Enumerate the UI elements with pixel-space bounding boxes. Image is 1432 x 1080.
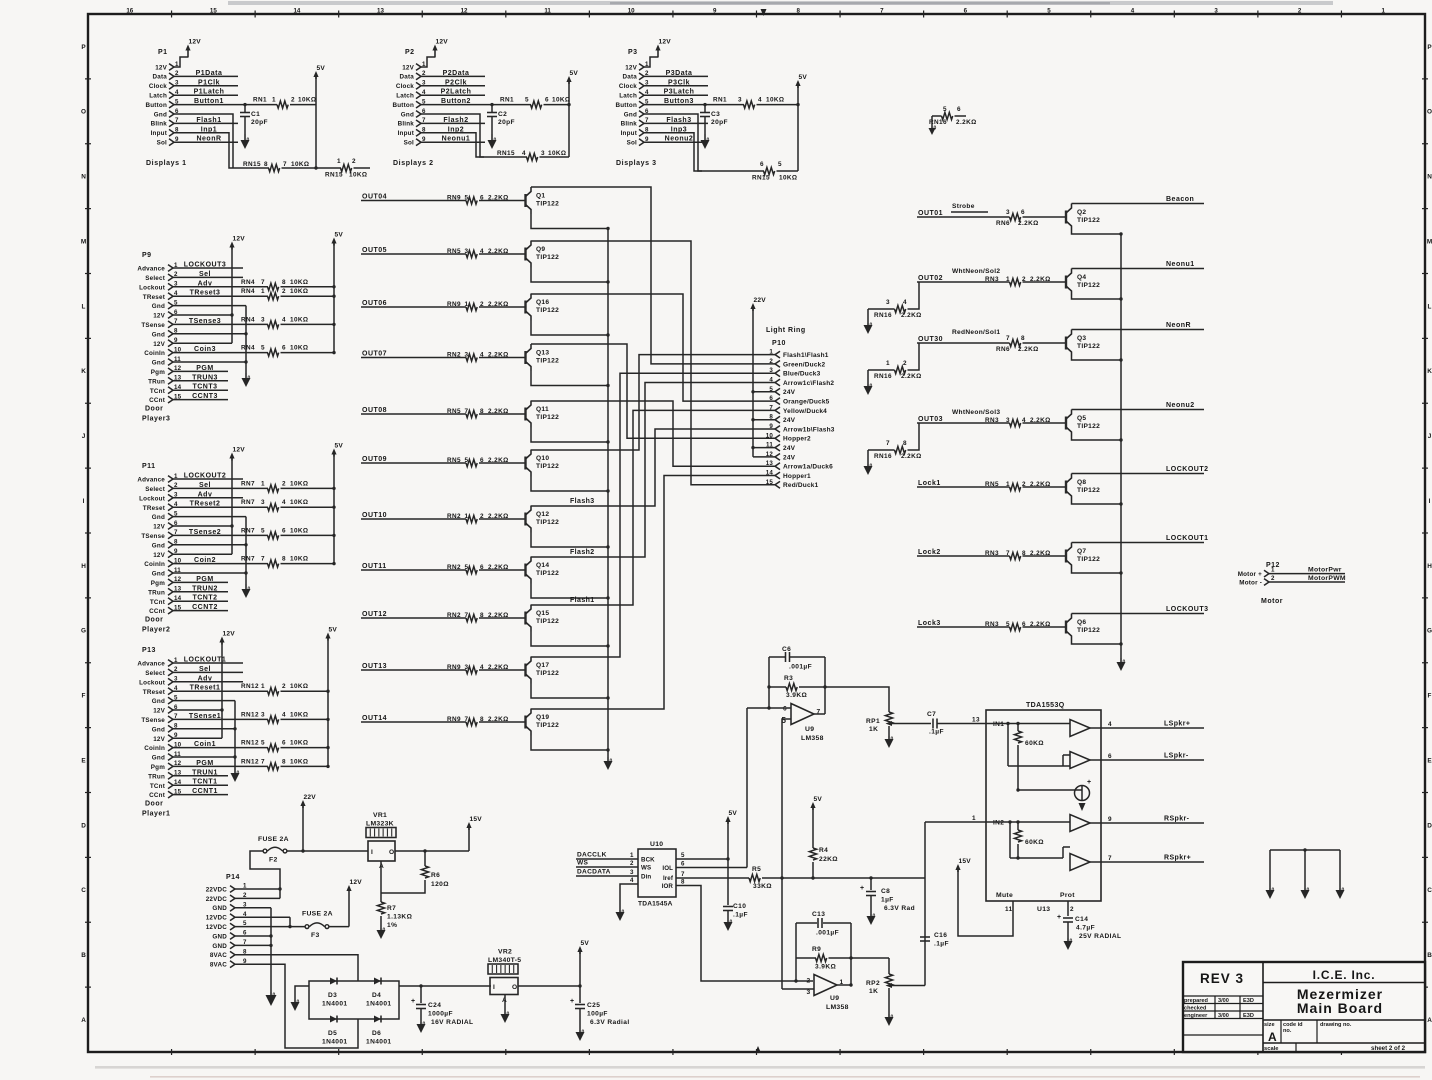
diode D3 1N4001 <box>322 978 348 1008</box>
svg-text:22V: 22V <box>304 794 317 801</box>
svg-text:RN9: RN9 <box>447 716 461 723</box>
svg-text:RN3: RN3 <box>985 417 999 424</box>
resistor RN9 3-4 2.2K <box>447 664 525 674</box>
svg-text:Arrow1c\Flash2: Arrow1c\Flash2 <box>783 380 834 387</box>
svg-text:5V: 5V <box>335 443 344 450</box>
ground arrow RN16 (OUT02) <box>864 323 873 335</box>
svg-text:12VDC: 12VDC <box>206 924 228 931</box>
svg-text:24V: 24V <box>783 454 796 461</box>
P11 12V power rail <box>229 447 245 555</box>
svg-text:24V: 24V <box>783 445 796 452</box>
resistor RN4 5-6 10K <box>173 345 336 357</box>
resistor RN2 7-8 2.2K <box>447 612 525 622</box>
15V supply to U13 mute <box>955 858 1013 936</box>
svg-text:12V: 12V <box>233 236 246 243</box>
svg-text:J: J <box>1428 433 1432 440</box>
svg-text:2: 2 <box>282 288 286 295</box>
net label OUT02 <box>918 275 943 282</box>
svg-text:RN12: RN12 <box>241 740 259 747</box>
svg-text:8: 8 <box>282 279 286 286</box>
svg-text:3: 3 <box>886 299 890 306</box>
svg-text:8: 8 <box>264 161 268 168</box>
svg-text:7: 7 <box>261 279 265 286</box>
wire Q9 collector to P10 pin 15 <box>531 241 775 485</box>
svg-text:Select: Select <box>145 670 165 677</box>
top border column numbers 16..1 <box>126 8 1385 18</box>
svg-text:I: I <box>371 849 373 856</box>
svg-text:OUT11: OUT11 <box>362 563 387 570</box>
svg-text:LM323K: LM323K <box>366 821 394 828</box>
svg-text:14: 14 <box>766 470 774 477</box>
Q2 emitter wire to rail <box>1072 231 1123 236</box>
svg-text:1: 1 <box>465 513 469 520</box>
svg-text:15V: 15V <box>959 858 972 865</box>
wire OUT12 to resistor <box>361 617 466 619</box>
svg-text:13: 13 <box>377 8 384 15</box>
svg-text:TRun: TRun <box>148 589 165 596</box>
svg-text:1: 1 <box>886 360 890 367</box>
svg-text:CoinIn: CoinIn <box>144 350 165 357</box>
label Displays 2 <box>393 160 434 167</box>
diode bridge outline <box>309 981 399 1019</box>
wire bridge output to VR2 <box>399 984 491 987</box>
svg-text:5: 5 <box>1047 8 1051 15</box>
Q1 emitter wire to ground rail <box>531 214 610 230</box>
svg-text:TRUN2: TRUN2 <box>192 585 218 592</box>
ground arrow RN16 (OUT30) <box>864 384 873 396</box>
svg-text:TRUN1: TRUN1 <box>192 769 218 776</box>
net label OUT30 <box>918 336 943 343</box>
svg-text:0: 0 <box>870 323 873 329</box>
label Door Player2 <box>142 617 170 634</box>
svg-text:5: 5 <box>261 740 265 747</box>
net label Lock2 <box>918 549 941 556</box>
svg-text:P: P <box>81 44 86 51</box>
svg-text:2.2KΩ: 2.2KΩ <box>488 301 509 308</box>
U13 lower bias network <box>986 820 1070 859</box>
transistor Q4 TIP122 <box>1066 269 1100 296</box>
wire OUT11 to resistor <box>361 569 466 571</box>
svg-text:2.2KΩ: 2.2KΩ <box>488 248 509 255</box>
svg-text:2: 2 <box>480 301 484 308</box>
svg-text:Flash2: Flash2 <box>570 549 595 556</box>
svg-text:15: 15 <box>210 8 217 15</box>
svg-text:TCnt: TCnt <box>150 388 166 395</box>
resistor RN9 5-6 2.2K <box>447 194 525 204</box>
P2 signal stubs <box>421 70 485 143</box>
svg-text:TIP122: TIP122 <box>536 254 559 261</box>
P9 ground arrow <box>242 373 251 387</box>
Q13 emitter wire to ground rail <box>531 371 610 387</box>
resistor RN7 7-8 10K <box>173 556 336 568</box>
wire U9a output to RP1 <box>814 687 889 714</box>
ground arrow U10 pin4 <box>616 910 625 922</box>
diode D4 1N4001 <box>366 978 392 1008</box>
svg-text:1.13KΩ: 1.13KΩ <box>387 914 413 921</box>
svg-text:Q16: Q16 <box>536 299 549 306</box>
feedback wires around U9b <box>796 923 853 987</box>
svg-text:.1µF: .1µF <box>929 729 944 736</box>
wire Button3 to RN1 <box>644 103 707 106</box>
P1 signal stubs <box>174 70 238 143</box>
svg-text:RN5: RN5 <box>447 248 461 255</box>
wire F3 to 12V arrow <box>329 879 362 927</box>
svg-text:J: J <box>82 433 86 440</box>
P11 ground arrow <box>242 584 251 598</box>
svg-text:3: 3 <box>1006 417 1010 424</box>
svg-text:5V: 5V <box>335 232 344 239</box>
svg-text:2: 2 <box>903 360 907 367</box>
svg-text:Flash3: Flash3 <box>570 498 595 505</box>
P10 22V power rail <box>750 297 766 457</box>
transistor Q2 TIP122 <box>1066 204 1100 231</box>
svg-text:TIP122: TIP122 <box>536 519 559 526</box>
svg-text:2: 2 <box>282 480 286 487</box>
svg-text:C16: C16 <box>934 932 947 939</box>
svg-text:WS: WS <box>641 865 651 872</box>
svg-text:Clock: Clock <box>396 83 414 90</box>
wire OUT04 to resistor <box>361 200 466 202</box>
svg-text:1N4001: 1N4001 <box>366 1039 392 1046</box>
svg-text:10KΩ: 10KΩ <box>766 97 784 104</box>
svg-text:RN7: RN7 <box>241 499 255 506</box>
svg-text:Q17: Q17 <box>536 662 549 669</box>
wire Q16 collector to P10 pin 6 <box>531 294 775 401</box>
svg-text:Flash2: Flash2 <box>443 117 468 124</box>
wire P14 8VAC pin8 to bridge <box>235 955 358 981</box>
svg-text:OUT08: OUT08 <box>362 407 387 414</box>
Q19 emitter wire to ground rail <box>531 736 610 752</box>
wire OUT09 to resistor <box>361 462 466 464</box>
svg-text:TSense: TSense <box>141 533 165 540</box>
svg-text:Q3: Q3 <box>1077 335 1086 342</box>
svg-text:10KΩ: 10KΩ <box>290 316 308 323</box>
resistor R4 22K and 5V <box>809 796 838 878</box>
svg-text:Flash1: Flash1 <box>196 117 221 124</box>
svg-text:TRun: TRun <box>148 773 165 780</box>
svg-text:4: 4 <box>480 248 484 255</box>
svg-text:Gnd: Gnd <box>624 111 637 118</box>
svg-text:TIP122: TIP122 <box>1077 217 1100 224</box>
U10 pin8 IOR wire to U9b <box>676 879 813 983</box>
svg-text:DACCLK: DACCLK <box>577 852 607 859</box>
svg-text:Q2: Q2 <box>1077 209 1086 216</box>
svg-text:1N4001: 1N4001 <box>366 1001 392 1008</box>
wire P14 8VAC pin9 to bridge <box>235 964 358 1048</box>
svg-text:TCnt: TCnt <box>150 599 166 606</box>
svg-text:NeonR: NeonR <box>1166 322 1191 329</box>
wire Q11 collector to P10 pin 13 <box>531 401 775 466</box>
wire Lock1 to resistor <box>917 486 1010 488</box>
svg-text:TIP122: TIP122 <box>1077 282 1100 289</box>
svg-text:VR1: VR1 <box>373 812 387 819</box>
svg-text:12V: 12V <box>436 39 449 46</box>
svg-text:F: F <box>1428 693 1432 700</box>
svg-text:Door: Door <box>145 406 163 413</box>
svg-text:RN15: RN15 <box>752 175 770 182</box>
transistor Q6 TIP122 <box>1066 614 1100 641</box>
svg-text:8: 8 <box>1022 550 1026 557</box>
wire VR1 adj <box>380 861 382 902</box>
svg-text:Data: Data <box>623 74 638 81</box>
svg-text:2.2KΩ: 2.2KΩ <box>1030 481 1051 488</box>
svg-text:TSense: TSense <box>141 717 165 724</box>
resistor RN16 5-6 2.2K (top) <box>929 106 977 126</box>
svg-text:2.2KΩ: 2.2KΩ <box>901 453 922 460</box>
svg-text:C2: C2 <box>498 111 507 118</box>
title size row <box>1263 1020 1425 1044</box>
resistor RN5 3-4 2.2K <box>447 248 525 258</box>
svg-text:U9: U9 <box>830 995 839 1002</box>
ground arrows triple stub <box>1266 888 1345 900</box>
label Displays 1 <box>146 160 187 167</box>
svg-text:25V RADIAL: 25V RADIAL <box>1079 933 1121 940</box>
svg-text:OUT06: OUT06 <box>362 300 387 307</box>
svg-text:1N4001: 1N4001 <box>322 1039 348 1046</box>
svg-text:RP1: RP1 <box>866 718 880 725</box>
svg-text:Q1: Q1 <box>536 193 545 200</box>
net label OUT11 <box>362 563 387 570</box>
svg-text:RP2: RP2 <box>866 980 880 987</box>
svg-text:P3Latch: P3Latch <box>664 89 695 96</box>
svg-text:Latch: Latch <box>396 93 414 100</box>
resistor RN7 1-2 10K <box>173 480 336 492</box>
svg-text:5: 5 <box>943 106 947 113</box>
svg-text:8: 8 <box>903 440 907 447</box>
svg-text:GND: GND <box>212 943 227 950</box>
svg-text:2.2KΩ: 2.2KΩ <box>956 119 977 126</box>
svg-text:TIP122: TIP122 <box>1077 343 1100 350</box>
Q14 emitter wire to ground rail <box>531 584 610 600</box>
net label RedNeon/Sol1 <box>952 329 1000 336</box>
svg-text:2.2KΩ: 2.2KΩ <box>488 408 509 415</box>
svg-text:5: 5 <box>261 527 265 534</box>
svg-text:9: 9 <box>769 423 773 430</box>
wire Q12 collector to P10 pin 9 <box>531 429 775 506</box>
svg-text:RN1: RN1 <box>253 97 267 104</box>
svg-text:E3D: E3D <box>1243 998 1254 1004</box>
net label Flash1 <box>570 597 595 604</box>
svg-text:2.2KΩ: 2.2KΩ <box>1030 621 1051 628</box>
svg-text:O: O <box>81 109 86 116</box>
svg-text:12V: 12V <box>189 39 202 46</box>
svg-text:16V RADIAL: 16V RADIAL <box>431 1019 473 1026</box>
svg-text:OUT09: OUT09 <box>362 456 387 463</box>
resistor RN1 1-2 10K <box>245 97 316 109</box>
svg-text:Lock3: Lock3 <box>918 620 941 627</box>
svg-text:C24: C24 <box>428 1002 441 1009</box>
svg-text:8: 8 <box>282 758 286 765</box>
P3 12V power arrow <box>644 39 671 68</box>
svg-text:5V: 5V <box>729 810 738 817</box>
svg-text:L: L <box>82 303 86 310</box>
svg-text:OUT30: OUT30 <box>918 336 943 343</box>
svg-text:Flash1\Flash1: Flash1\Flash1 <box>783 352 829 359</box>
svg-text:6: 6 <box>769 395 773 402</box>
svg-text:RN5: RN5 <box>447 457 461 464</box>
svg-text:Player3: Player3 <box>142 416 170 423</box>
svg-text:5V: 5V <box>799 74 808 81</box>
svg-text:P1Latch: P1Latch <box>194 89 225 96</box>
Q7 emitter wire to rail <box>1072 570 1123 575</box>
svg-text:P3: P3 <box>628 49 638 56</box>
capacitor C13 .001uF <box>796 911 851 937</box>
resistor RN12 5-6 10K <box>173 740 330 752</box>
svg-text:LOCKOUT2: LOCKOUT2 <box>1166 466 1209 473</box>
P13 ground arrow <box>231 768 240 782</box>
svg-text:10KΩ: 10KΩ <box>290 480 308 487</box>
svg-text:RN5: RN5 <box>985 481 999 488</box>
svg-text:2.2KΩ: 2.2KΩ <box>901 312 922 319</box>
connector P9 (Door Player3) <box>137 252 181 404</box>
svg-text:11: 11 <box>544 8 551 15</box>
svg-text:12V: 12V <box>155 64 167 71</box>
svg-text:3: 3 <box>807 989 811 996</box>
svg-text:RN16: RN16 <box>874 312 892 319</box>
svg-text:Door: Door <box>145 617 163 624</box>
svg-text:2.2KΩ: 2.2KΩ <box>488 457 509 464</box>
svg-text:TCnt: TCnt <box>150 783 166 790</box>
svg-text:C8: C8 <box>881 888 890 895</box>
svg-text:1: 1 <box>272 97 276 104</box>
svg-text:RN15: RN15 <box>325 172 343 179</box>
svg-text:0: 0 <box>1342 888 1345 894</box>
resistor RN9 7-8 2.2K <box>447 716 525 726</box>
svg-text:RN1: RN1 <box>500 97 514 104</box>
svg-text:FUSE 2A: FUSE 2A <box>302 911 333 918</box>
svg-text:15V: 15V <box>470 816 483 823</box>
resistor RN9 1-2 2.2K <box>447 301 525 311</box>
svg-text:2.2KΩ: 2.2KΩ <box>488 716 509 723</box>
transistor Q14 TIP122 <box>526 557 560 584</box>
svg-text:Data: Data <box>153 74 168 81</box>
svg-text:5V: 5V <box>581 940 590 947</box>
svg-text:10KΩ: 10KΩ <box>290 527 308 534</box>
svg-text:Sol: Sol <box>404 140 414 147</box>
svg-text:Q10: Q10 <box>536 455 549 462</box>
svg-text:8: 8 <box>480 408 484 415</box>
capacitor C3 20pF <box>700 105 728 134</box>
net label LOCKOUT1 <box>1166 535 1209 542</box>
svg-text:VR2: VR2 <box>498 949 512 956</box>
svg-text:I: I <box>83 498 85 505</box>
net label OUT10 <box>362 512 387 519</box>
svg-text:Input: Input <box>151 130 168 137</box>
svg-text:7: 7 <box>465 612 469 619</box>
svg-text:3: 3 <box>738 97 742 104</box>
wire RP2 wiper to C16 node <box>892 822 925 986</box>
transistor Q10 TIP122 <box>526 450 560 477</box>
svg-text:10KΩ: 10KΩ <box>291 161 309 168</box>
svg-text:Q5: Q5 <box>1077 415 1086 422</box>
net label WhtNeon/Sol2 <box>952 268 1000 275</box>
svg-text:7: 7 <box>681 871 685 878</box>
svg-text:RN12: RN12 <box>241 758 259 765</box>
svg-text:4: 4 <box>1108 721 1112 728</box>
svg-text:E3D: E3D <box>1243 1013 1254 1019</box>
Q8 emitter wire to rail <box>1072 501 1123 506</box>
svg-text:K: K <box>1427 368 1432 375</box>
wire Button2 to RN1 <box>421 103 494 106</box>
Q4 emitter wire to rail <box>1072 296 1123 301</box>
svg-text:1: 1 <box>630 852 634 859</box>
svg-text:100µF: 100µF <box>587 1011 608 1018</box>
wire VR2 output to 5V <box>518 940 589 988</box>
svg-text:11: 11 <box>1005 906 1013 913</box>
svg-text:C14: C14 <box>1075 916 1088 923</box>
U13 internal amp A1 <box>1070 720 1090 737</box>
P13 12V power rail <box>219 631 235 739</box>
ground arrow P14 <box>266 992 277 1006</box>
svg-text:22V: 22V <box>754 297 767 304</box>
svg-text:+: + <box>860 885 865 892</box>
U10 pin5 to 5V <box>676 810 737 861</box>
svg-text:Strobe: Strobe <box>952 203 975 210</box>
svg-text:scale: scale <box>1264 1046 1279 1052</box>
svg-text:13: 13 <box>766 460 774 467</box>
P3 signal stubs <box>644 70 708 143</box>
svg-text:3: 3 <box>630 869 634 876</box>
svg-text:Gnd: Gnd <box>152 331 165 338</box>
Q6 emitter wire to rail <box>1072 641 1123 646</box>
svg-text:RN4: RN4 <box>241 345 255 352</box>
svg-text:Displays 2: Displays 2 <box>393 160 434 167</box>
svg-text:Main Board: Main Board <box>1297 1000 1383 1016</box>
connector P11 (Door Player2) <box>137 463 181 615</box>
svg-text:.001µF: .001µF <box>789 664 812 671</box>
svg-text:Q12: Q12 <box>536 511 549 518</box>
svg-text:Gnd: Gnd <box>152 303 165 310</box>
U13 IN2 label and pin 1 <box>972 815 1004 827</box>
svg-text:Gnd: Gnd <box>401 111 414 118</box>
svg-text:8VAC: 8VAC <box>210 962 227 969</box>
svg-text:3: 3 <box>1006 209 1010 216</box>
P11 signal stubs <box>173 473 243 612</box>
ground arrow RN16 (OUT03) <box>864 464 873 476</box>
svg-text:CoinIn: CoinIn <box>144 745 165 752</box>
resistor RN6 7-8 2.2K <box>996 335 1066 353</box>
svg-text:CCNT2: CCNT2 <box>192 604 218 611</box>
svg-text:10KΩ: 10KΩ <box>349 172 367 179</box>
ground below VR2 <box>501 995 510 1024</box>
P10 24V stub wires <box>753 392 775 457</box>
svg-text:Gnd: Gnd <box>152 726 165 733</box>
Q7 collector wire <box>1072 542 1205 544</box>
svg-text:12V: 12V <box>153 708 165 715</box>
svg-text:Q13: Q13 <box>536 350 549 357</box>
svg-text:1: 1 <box>1006 481 1010 488</box>
wire OUT30 to resistor <box>917 342 1010 344</box>
svg-text:WS: WS <box>577 860 589 867</box>
svg-text:2: 2 <box>769 358 773 365</box>
svg-text:10KΩ: 10KΩ <box>290 345 308 352</box>
capacitor C24 1000uF 16V RADIAL <box>411 986 473 1026</box>
label Displays 3 <box>616 160 657 167</box>
svg-text:N: N <box>1427 174 1432 181</box>
svg-text:Gnd: Gnd <box>154 111 167 118</box>
svg-text:Gnd: Gnd <box>152 514 165 521</box>
svg-text:P3Data: P3Data <box>666 70 693 77</box>
svg-text:7: 7 <box>880 8 884 15</box>
svg-text:0: 0 <box>891 1015 894 1021</box>
svg-text:Clock: Clock <box>149 83 167 90</box>
transistor Q9 TIP122 <box>526 241 560 268</box>
svg-text:LOCKOUT1: LOCKOUT1 <box>184 657 227 664</box>
resistor RN1 5-6 10K <box>492 97 570 109</box>
svg-text:OUT01: OUT01 <box>918 210 943 217</box>
svg-text:E: E <box>81 757 86 764</box>
svg-text:TIP122: TIP122 <box>536 722 559 729</box>
